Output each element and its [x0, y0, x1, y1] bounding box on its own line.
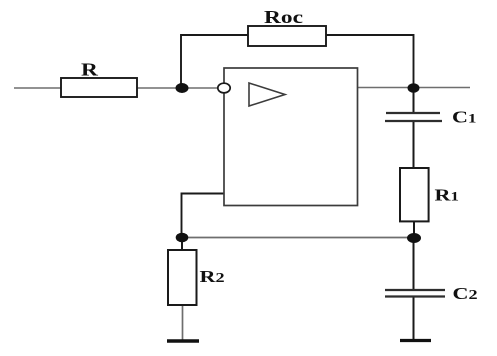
svg-text:C2: C2 [453, 284, 478, 303]
svg-text:R: R [81, 59, 99, 80]
svg-text:Roc: Roc [264, 7, 303, 28]
svg-text:R2: R2 [200, 267, 225, 286]
